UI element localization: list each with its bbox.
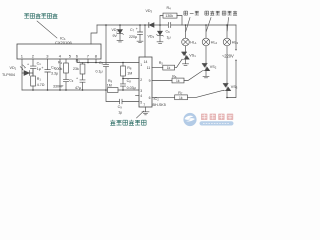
pointer channel 2 bbox=[206, 18, 211, 32]
capacitor C9 row bbox=[106, 90, 139, 104]
gate wire VS3 bbox=[152, 96, 175, 98]
svg-text:4.7Ω: 4.7Ω bbox=[37, 83, 45, 87]
svg-text:1μ: 1μ bbox=[37, 67, 41, 71]
svg-text:C9: C9 bbox=[118, 105, 123, 110]
svg-text:1μ: 1μ bbox=[167, 35, 171, 39]
svg-text:+: + bbox=[41, 66, 43, 70]
wire: pin1 column bbox=[21, 59, 23, 90]
svg-text:9V: 9V bbox=[113, 34, 118, 38]
capacitor C5 column bbox=[103, 25, 108, 90]
pointer channel 1 bbox=[186, 18, 190, 32]
svg-text:R3: R3 bbox=[76, 59, 81, 64]
svg-text:4: 4 bbox=[59, 54, 62, 59]
svg-text:3: 3 bbox=[140, 89, 142, 93]
wire: VDD rail bbox=[97, 24, 236, 26]
svg-text:5: 5 bbox=[140, 101, 142, 105]
svg-text:130k: 130k bbox=[165, 14, 173, 18]
triac VS1 bbox=[182, 51, 190, 59]
gate wire VS2 bbox=[152, 80, 172, 82]
zener VD4 bbox=[159, 25, 161, 31]
gate wire VS1 bbox=[152, 67, 163, 69]
annotation pointer to IC2 (remote processing circuit) bbox=[137, 111, 144, 118]
triac VS3 bbox=[223, 83, 231, 91]
capacitor C6 in rail bbox=[168, 23, 170, 28]
svg-text:3.3μ: 3.3μ bbox=[51, 72, 58, 76]
svg-text:1k: 1k bbox=[179, 96, 183, 100]
junctions on ground rail bbox=[32, 89, 34, 91]
svg-text:+: + bbox=[136, 27, 138, 31]
wire: pin7 drop bbox=[145, 107, 147, 112]
wire: pin8 stub bbox=[95, 59, 97, 63]
svg-text:R7: R7 bbox=[178, 91, 183, 96]
lamp HL3 branch bbox=[226, 25, 228, 38]
svg-text:R4: R4 bbox=[167, 6, 172, 11]
svg-text:HL2: HL2 bbox=[211, 41, 218, 46]
capacitor C3 bbox=[63, 79, 68, 90]
resistor R9 in ground line bbox=[108, 88, 119, 93]
wire: pin4 column bbox=[59, 59, 61, 90]
wire: signal line IC1 pin7 to IC2 pin1 bbox=[77, 62, 139, 64]
teal annotation: 红外接收电路 bbox=[24, 13, 57, 18]
junctions on VDD rail bbox=[105, 24, 107, 26]
wire: pin14 riser bbox=[144, 25, 146, 57]
capacitor C7 bbox=[137, 25, 142, 41]
svg-text:VS1: VS1 bbox=[189, 54, 196, 59]
wire: pin3 column bbox=[47, 59, 49, 69]
wire: pin7 stub bbox=[87, 59, 89, 63]
zener VD2 bbox=[119, 25, 121, 29]
svg-text:VS2: VS2 bbox=[210, 65, 217, 70]
svg-text:VS3: VS3 bbox=[231, 85, 238, 90]
svg-text:+: + bbox=[76, 76, 78, 80]
svg-text:C7: C7 bbox=[130, 28, 135, 33]
svg-text:1M: 1M bbox=[107, 84, 112, 88]
svg-text:C3: C3 bbox=[69, 79, 74, 84]
svg-text:VD1: VD1 bbox=[10, 66, 17, 71]
svg-text:3300P: 3300P bbox=[53, 85, 64, 89]
junction VS3 cathode node bbox=[226, 97, 228, 99]
svg-text:8: 8 bbox=[95, 54, 98, 59]
diode VD3 in rail bbox=[148, 23, 150, 28]
capacitor C2 bbox=[45, 70, 51, 90]
svg-text:47μ: 47μ bbox=[75, 86, 81, 90]
svg-text:C8: C8 bbox=[127, 79, 132, 84]
teal annotation: 遥控处理电路 bbox=[110, 120, 146, 126]
lamp HL2 branch bbox=[205, 25, 207, 38]
svg-text:0.1μ: 0.1μ bbox=[96, 69, 103, 73]
svg-text:1: 1 bbox=[140, 63, 142, 67]
svg-text:1M: 1M bbox=[127, 72, 132, 76]
svg-text:R1: R1 bbox=[37, 77, 42, 82]
lamp HL1 branch bbox=[185, 25, 187, 38]
svg-text:3: 3 bbox=[46, 54, 49, 59]
resistor R3 bbox=[82, 63, 84, 65]
svg-text:23k: 23k bbox=[73, 67, 79, 71]
resistor R2 bbox=[64, 63, 69, 73]
svg-text:7: 7 bbox=[143, 103, 145, 107]
wire: pin5 stub bbox=[65, 59, 67, 63]
svg-text:+: + bbox=[27, 62, 29, 66]
svg-text:4: 4 bbox=[140, 94, 142, 98]
capacitor C4 bbox=[80, 80, 85, 90]
svg-text:6: 6 bbox=[149, 96, 151, 100]
svg-text:HL3: HL3 bbox=[232, 41, 239, 46]
wire: pin6 stub bbox=[76, 59, 78, 63]
triac VS2 bbox=[202, 63, 210, 71]
annotation pointer to IC1 (infrared receiver circuit) bbox=[37, 21, 57, 38]
pointer channel 3 bbox=[227, 18, 228, 32]
junction R8/C8 node bbox=[122, 78, 124, 80]
svg-text:~220V: ~220V bbox=[222, 54, 234, 59]
svg-text:2: 2 bbox=[32, 54, 35, 59]
svg-text:R8: R8 bbox=[127, 66, 132, 71]
ground rail bbox=[22, 89, 106, 91]
wire: pin4 stub bbox=[136, 95, 140, 97]
IC U1 CX20106 body bbox=[17, 44, 101, 59]
svg-text:5: 5 bbox=[69, 54, 72, 59]
svg-text:VD2: VD2 bbox=[112, 28, 119, 33]
svg-text:200k: 200k bbox=[55, 67, 63, 71]
watermark bbox=[183, 113, 233, 126]
svg-text:R5: R5 bbox=[159, 61, 164, 66]
svg-text:2: 2 bbox=[140, 78, 142, 82]
resistor R8 bbox=[122, 63, 124, 67]
svg-text:220μ: 220μ bbox=[129, 35, 137, 39]
svg-text:1k: 1k bbox=[176, 79, 180, 83]
svg-text:1k: 1k bbox=[167, 66, 171, 70]
svg-text:C6: C6 bbox=[166, 29, 171, 34]
AC 220V wire bbox=[227, 25, 236, 98]
resistor R1 bbox=[31, 76, 36, 86]
resistor R4 branch bbox=[160, 16, 182, 26]
svg-text:7: 7 bbox=[87, 54, 90, 59]
svg-text:TLP904: TLP904 bbox=[2, 73, 15, 77]
IC U2 BH-SK5 body bbox=[139, 57, 152, 107]
svg-text:11: 11 bbox=[147, 66, 151, 70]
svg-text:C5: C5 bbox=[99, 61, 104, 66]
svg-text:CX20106: CX20106 bbox=[55, 40, 72, 45]
svg-text:14: 14 bbox=[144, 60, 148, 64]
svg-text:HL1: HL1 bbox=[190, 41, 197, 46]
svg-text:IC2: IC2 bbox=[154, 97, 160, 102]
photodiode VD1 TLP904 bbox=[22, 71, 33, 76]
capacitor C1 bbox=[30, 66, 36, 76]
svg-text:VD3: VD3 bbox=[146, 9, 153, 14]
svg-text:1μ: 1μ bbox=[118, 111, 122, 115]
wire: VDD step from IC1 top to rail bbox=[91, 25, 97, 44]
svg-text:1: 1 bbox=[21, 54, 24, 59]
wire: pin2 column bbox=[32, 59, 34, 66]
svg-text:6: 6 bbox=[76, 54, 79, 59]
channel labels 第一路 第二路 第三路 bbox=[184, 11, 237, 15]
ground under IC2 bbox=[142, 112, 149, 115]
capacitor C8 bbox=[120, 79, 125, 91]
svg-text:R2: R2 bbox=[58, 61, 63, 66]
svg-text:0.03μ: 0.03μ bbox=[127, 86, 136, 90]
junctions on signal wire bbox=[87, 62, 89, 64]
svg-text:9: 9 bbox=[149, 79, 151, 83]
svg-text:BH-SK5: BH-SK5 bbox=[153, 103, 166, 107]
svg-text:VD4: VD4 bbox=[148, 35, 155, 40]
